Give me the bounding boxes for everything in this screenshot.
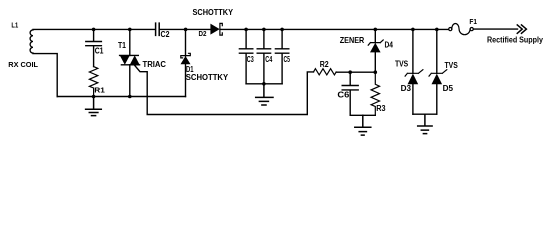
svg-text:L1: L1 <box>11 21 18 30</box>
zener D4 triangle <box>370 43 381 53</box>
wire rail C2 to D2 <box>159 28 210 30</box>
schottky diode D1 <box>185 29 187 96</box>
wire rail fuse to arrow <box>473 28 517 30</box>
svg-text:ZENER: ZENER <box>340 35 365 45</box>
svg-text:D3: D3 <box>401 84 412 93</box>
tvs diode D5 <box>436 29 438 114</box>
junction dots top rail <box>92 28 96 32</box>
wire top rail from coil to C2 <box>33 28 155 30</box>
tvs diode D3 <box>412 29 414 114</box>
svg-text:R3: R3 <box>376 104 386 113</box>
resistor R2 <box>314 69 337 75</box>
svg-text:RX COIL: RX COIL <box>8 60 38 69</box>
svg-text:SCHOTTKY: SCHOTTKY <box>193 7 234 17</box>
svg-text:C1: C1 <box>95 47 104 56</box>
diode D2 triangle <box>210 24 219 35</box>
svg-text:TVS: TVS <box>445 61 459 70</box>
wire bottom rail <box>57 96 185 98</box>
capacitor C5 <box>275 29 288 83</box>
svg-text:R2: R2 <box>320 60 329 69</box>
svg-text:C5: C5 <box>284 55 291 64</box>
wire coil bottom <box>33 54 57 97</box>
svg-text:C3: C3 <box>247 55 254 64</box>
arrow rectified supply <box>517 24 527 33</box>
wire joining C6 R3 bottoms <box>350 114 375 116</box>
wire node R2 to D4/R3 <box>336 71 375 73</box>
svg-text:D2: D2 <box>199 31 207 38</box>
resistor R1 <box>89 67 97 97</box>
capacitor C1 <box>86 29 102 66</box>
svg-text:C6: C6 <box>337 90 349 100</box>
inductor L1 coil <box>30 30 33 53</box>
zener diode D4 <box>374 29 376 72</box>
svg-text:D4: D4 <box>385 41 394 50</box>
svg-text:F1: F1 <box>469 17 477 26</box>
tvs D3 triangle <box>408 74 419 85</box>
triac T1 triangles <box>120 55 140 64</box>
ground below R1 <box>86 97 102 116</box>
svg-text:C2: C2 <box>161 30 170 39</box>
capacitor C2 <box>156 23 160 35</box>
svg-text:Rectified Supply: Rectified Supply <box>487 36 543 45</box>
svg-text:D5: D5 <box>443 84 454 93</box>
junction dots bottom rail <box>92 95 96 99</box>
capacitor C3 <box>239 29 252 83</box>
svg-text:SCHOTTKY: SCHOTTKY <box>186 72 229 82</box>
ground below D3/D5 <box>418 114 432 133</box>
svg-text:R1: R1 <box>94 85 105 94</box>
tvs D5 triangle <box>432 74 443 85</box>
ground below C6/R3 <box>355 115 371 135</box>
svg-text:TRIAC: TRIAC <box>143 60 167 69</box>
resistor R3 <box>371 72 379 115</box>
capacitor C6 <box>342 72 358 115</box>
fuse F1 <box>452 24 470 35</box>
capacitor C4 <box>257 29 270 83</box>
triac T1 bars <box>120 55 140 64</box>
diode D1 triangle <box>181 56 191 64</box>
schottky diode D2 cathode bar <box>220 23 222 35</box>
svg-text:C4: C4 <box>265 55 272 64</box>
wire joining C3 C4 C5 bottoms <box>246 83 282 85</box>
triac T1 gate wire <box>134 65 313 115</box>
svg-text:T1: T1 <box>118 41 126 50</box>
wire rail D2 to fuse <box>221 28 449 30</box>
svg-text:TVS: TVS <box>395 59 409 68</box>
triac T1 vertical leads <box>129 29 131 96</box>
ground below C4 <box>256 84 273 105</box>
junction dot C4 bottom <box>262 82 266 86</box>
wire joining D3 D5 bottoms <box>413 113 437 115</box>
junction dots node line <box>348 70 352 74</box>
